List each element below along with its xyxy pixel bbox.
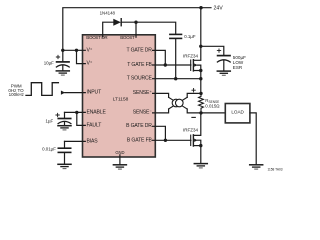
svg-text:V⁺: V⁺ xyxy=(87,47,93,53)
svg-text:1N4148: 1N4148 xyxy=(100,11,116,16)
svg-text:LOAD: LOAD xyxy=(231,110,244,115)
svg-text:FAULT: FAULT xyxy=(87,122,102,128)
svg-text:24V: 24V xyxy=(214,6,224,12)
ground (500uF) xyxy=(217,71,230,75)
svg-text:ENABLE: ENABLE xyxy=(87,109,107,115)
svg-text:ESR: ESR xyxy=(233,65,243,70)
wire SENSE- (twisted pair bottom) xyxy=(153,109,169,113)
minus polarity mark xyxy=(192,116,195,118)
wire 24V supply rail xyxy=(63,8,211,51)
node 500uF branch junction xyxy=(199,45,202,48)
ground (10uF) xyxy=(56,71,69,75)
wire BOOST DR to BOOST (boost supply) xyxy=(103,22,114,37)
node T SOURCE / FET source junction xyxy=(199,77,202,80)
wire T SOURCE xyxy=(153,78,201,80)
wire GND pin xyxy=(119,155,121,165)
wire ENABLE xyxy=(65,111,86,113)
svg-text:1µF: 1µF xyxy=(46,119,54,124)
svg-text:T GATE FB: T GATE FB xyxy=(127,62,152,68)
wire top FET drain to 24V xyxy=(200,8,202,47)
svg-text:BOOST: BOOST xyxy=(120,35,135,40)
svg-text:BOOST DR: BOOST DR xyxy=(86,35,108,40)
arrow into INPUT xyxy=(61,91,65,95)
node 0.1uF / T SOURCE junction xyxy=(174,77,177,80)
wire BIAS xyxy=(65,140,86,142)
node V+ rail junction xyxy=(61,49,64,52)
svg-text:T SOURCE: T SOURCE xyxy=(127,76,153,82)
svg-text:T GATE DR: T GATE DR xyxy=(126,47,152,53)
transistor Q1 IRFZ34 top xyxy=(183,46,203,93)
wire BOOST pin xyxy=(135,22,137,37)
diode D1 1N4148 xyxy=(100,11,122,26)
svg-text:LT1158: LT1158 xyxy=(113,96,129,102)
wire T GATE FB to top gate xyxy=(153,64,191,66)
twisted pair crossover xyxy=(169,97,188,109)
ground (0.01uF) xyxy=(58,164,71,168)
wire SENSE+ (twisted pair top) xyxy=(153,93,169,97)
capacitor C5 500uF LOW ESR xyxy=(201,46,246,71)
resistor RSENSE 0.015 ohm xyxy=(199,93,221,113)
node b-gate junction xyxy=(164,139,167,142)
capacitor C4 0.01uF xyxy=(42,141,71,164)
capacitor C1 10uF xyxy=(44,50,70,71)
wire B GATE FB to bottom gate xyxy=(153,139,191,141)
svg-text:0.1µF: 0.1µF xyxy=(184,34,196,39)
plus polarity mark xyxy=(192,89,195,92)
node RSENSE top junction xyxy=(199,92,202,95)
wire INPUT xyxy=(65,92,86,94)
svg-text:IRFZ34: IRFZ34 xyxy=(183,127,199,132)
node RSENSE bottom junction xyxy=(199,111,202,114)
svg-text:1158 TA03: 1158 TA03 xyxy=(267,167,282,171)
op-amp U1 LT1158 IC body xyxy=(83,35,156,157)
transistor Q2 IRFZ34 bottom xyxy=(183,113,203,163)
wire T GATE DR xyxy=(153,50,166,65)
node t-gate junction xyxy=(164,63,167,66)
svg-text:INPUT: INPUT xyxy=(87,90,102,96)
svg-text:GND: GND xyxy=(115,150,124,155)
svg-text:B GATE FB: B GATE FB xyxy=(127,137,153,143)
svg-text:100kHz: 100kHz xyxy=(9,92,25,97)
svg-text:V⁺: V⁺ xyxy=(87,61,93,67)
wire B GATE DR xyxy=(153,126,166,140)
wire LOAD to ground xyxy=(250,113,256,165)
svg-text:B GATE DR: B GATE DR xyxy=(126,123,152,129)
svg-text:0.015Ω: 0.015Ω xyxy=(205,103,220,108)
capacitor C3 1uF xyxy=(46,112,71,125)
svg-text:0.01µF: 0.01µF xyxy=(42,146,56,151)
wire V+ pin 1 xyxy=(63,49,86,51)
PWM input source waveform xyxy=(8,83,58,97)
wire V+ pin 2 xyxy=(77,50,86,63)
svg-text:BIAS: BIAS xyxy=(87,138,99,144)
wire 0.1uF to T SOURCE node xyxy=(175,39,177,79)
node V+ branch junction xyxy=(75,49,78,52)
ground (1uF) xyxy=(58,126,71,130)
node enable/fault junction xyxy=(75,111,78,114)
svg-text:10µF: 10µF xyxy=(44,61,54,66)
wire FAULT xyxy=(77,112,86,125)
ground (bottom FET source) xyxy=(194,164,207,168)
LOAD box xyxy=(225,104,250,123)
node boost junction xyxy=(134,21,137,24)
svg-text:SENSE⁺: SENSE⁺ xyxy=(133,90,153,96)
svg-text:IRFZ34: IRFZ34 xyxy=(183,53,199,58)
ground (load) xyxy=(250,165,263,169)
node 24V junction xyxy=(199,6,202,9)
ground (IC GND) xyxy=(113,165,126,169)
capacitor C2 0.1uF (boost) xyxy=(170,34,196,39)
svg-text:SENSE⁻: SENSE⁻ xyxy=(133,109,153,115)
